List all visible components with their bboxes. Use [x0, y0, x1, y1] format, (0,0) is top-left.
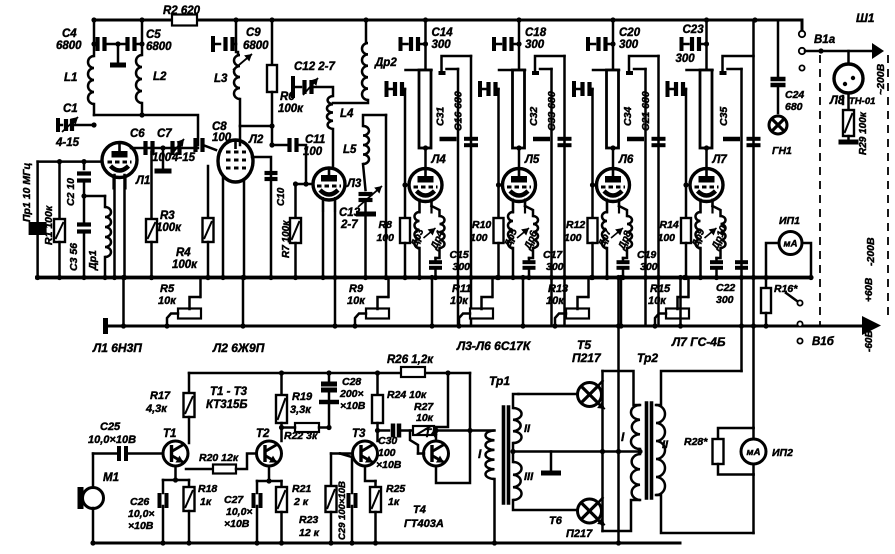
capacitor C9 6800: [211, 36, 215, 52]
svg-text:100к: 100к: [156, 222, 182, 234]
transformer Tr2: [631, 405, 640, 449]
svg-text:4-15: 4-15: [171, 152, 196, 164]
resistor R8 100: [404, 89, 407, 218]
tube Л5: [503, 169, 536, 202]
resistor R9 10к trimmer: [366, 309, 389, 319]
svg-text:Т2: Т2: [256, 428, 270, 440]
anode line element of Л4: [406, 69, 432, 72]
svg-text:100: 100: [303, 146, 323, 158]
wire bottom bus B4: [93, 542, 680, 545]
svg-text:C9: C9: [246, 27, 261, 39]
resistor R27 10k trimmer: [413, 426, 434, 435]
svg-text:R25: R25: [386, 483, 405, 495]
svg-text:ТН-01: ТН-01: [849, 96, 875, 107]
svg-text:Л4: Л4: [431, 154, 447, 166]
wire anode feed of Л5: [518, 20, 521, 69]
capacitor C27: [256, 481, 259, 493]
resistor R24 10k: [376, 373, 379, 395]
svg-text:×10В: ×10В: [224, 518, 250, 530]
transistor T1: [163, 441, 188, 466]
svg-text:С19: С19: [637, 249, 656, 261]
svg-text:1к: 1к: [388, 496, 400, 508]
wire L3 cathode legs: [322, 199, 325, 278]
svg-text:R15: R15: [650, 283, 671, 295]
svg-text:С20: С20: [619, 27, 641, 39]
svg-text:мА: мА: [784, 239, 798, 250]
svg-text:C10: C10: [276, 187, 287, 206]
resistor R3 100k: [150, 152, 153, 219]
grid capacitor of Л7: [666, 81, 670, 97]
svg-text:L1: L1: [64, 72, 77, 84]
wire anode feed of Л6: [612, 20, 615, 69]
wire T3 base node: [340, 452, 352, 455]
svg-text:4,3к: 4,3к: [145, 403, 168, 415]
capacitor С19 300 of Л6: [622, 258, 625, 260]
svg-text:10к: 10к: [450, 295, 469, 307]
svg-text:Пр1 10 МГц: Пр1 10 МГц: [21, 162, 33, 222]
wire mid bus B2: [37, 276, 811, 280]
svg-text:R21: R21: [292, 483, 311, 495]
svg-text:300: 300: [676, 53, 696, 65]
svg-text:100: 100: [658, 232, 676, 244]
anode line element of Л7: [687, 69, 713, 72]
svg-text:ГН1: ГН1: [772, 145, 792, 157]
svg-text:300: 300: [640, 261, 658, 273]
svg-text:С13: С13: [339, 207, 361, 219]
svg-text:2-7: 2-7: [340, 219, 358, 231]
svg-text:С31: С31: [435, 107, 447, 126]
svg-text:10к: 10к: [648, 295, 667, 307]
svg-text:10к: 10к: [347, 295, 366, 307]
crystal Pr1: [36, 162, 39, 222]
resistor R20 12k: [186, 468, 213, 471]
svg-text:Т3: Т3: [352, 428, 366, 440]
svg-text:C25: C25: [100, 421, 121, 433]
capacitor С31 of Л4: [439, 71, 446, 75]
svg-text:М1: М1: [103, 472, 119, 484]
svg-text:С22: С22: [716, 282, 735, 294]
svg-text:×10В: ×10В: [128, 520, 154, 532]
svg-text:R29 100к: R29 100к: [858, 111, 869, 155]
svg-text:C2 10: C2 10: [65, 178, 77, 206]
capacitor С35 of Л7: [720, 71, 727, 75]
wire T5 base: [519, 393, 578, 396]
svg-text:3,3к: 3,3к: [290, 404, 312, 416]
capacitor С17 300 of Л5: [528, 258, 531, 260]
svg-text:L3: L3: [214, 73, 228, 85]
wire L3 to R6 node: [240, 125, 272, 128]
svg-text:R9: R9: [349, 283, 364, 295]
tube L2 6Zh9P: [218, 140, 253, 182]
svg-text:С28: С28: [342, 376, 361, 388]
svg-text:300: 300: [546, 261, 564, 273]
terminal V1a top: [799, 31, 805, 37]
verticals between buses: [122, 278, 125, 327]
capacitor loop С21 680 of Л6: [629, 56, 659, 72]
wire antenna line: [799, 48, 805, 54]
svg-text:L5: L5: [343, 144, 357, 156]
svg-text:С18: С18: [525, 27, 547, 39]
grid capacitor of Л6: [572, 81, 576, 97]
svg-text:Л7: Л7: [712, 154, 728, 166]
svg-text:6800: 6800: [243, 40, 269, 52]
svg-text:680: 680: [785, 101, 803, 113]
resistor R26 1.2k: [401, 367, 425, 377]
capacitor C4: [95, 37, 99, 51]
resistor R23 12k: [330, 454, 333, 487]
svg-text:~200В: ~200В: [875, 63, 887, 95]
svg-text:С7: С7: [157, 128, 172, 140]
grid capacitor of Л4: [385, 81, 389, 97]
wire anode feed of Л7: [705, 20, 708, 69]
dashed connector lines: [819, 55, 821, 326]
svg-text:С17: С17: [543, 249, 563, 261]
svg-text:ГТ403А: ГТ403А: [404, 518, 444, 530]
resistor R17 4.3k: [188, 373, 191, 393]
wire feed to Tr1: [469, 373, 472, 431]
svg-text:200×: 200×: [339, 388, 364, 400]
resistor R25 1k: [374, 481, 377, 487]
terminal left end of B3: [103, 318, 108, 334]
svg-text:R5: R5: [160, 283, 175, 295]
svg-text:R23: R23: [299, 514, 318, 526]
microphone M1: [92, 454, 95, 488]
svg-text:Л3: Л3: [346, 178, 362, 190]
svg-text:R14: R14: [660, 219, 679, 231]
inductor L5: [363, 115, 386, 126]
tube Л6: [597, 169, 630, 202]
capacitor C3 56: [81, 193, 86, 198]
svg-text:100к: 100к: [172, 259, 198, 271]
svg-text:Тр2: Тр2: [637, 351, 658, 365]
resistor R18 1k: [188, 480, 191, 487]
resistor R28: [718, 428, 754, 439]
cathode chokes Др7 Др8 of Л6: [602, 212, 607, 248]
svg-text:Л1: Л1: [135, 175, 150, 187]
svg-text:С29 100×10В: С29 100×10В: [337, 481, 348, 540]
svg-text:Л2 6Ж9П: Л2 6Ж9П: [212, 341, 265, 355]
wire T5 collector to Tr2: [603, 371, 641, 405]
transistor T3: [353, 441, 378, 466]
capacitor C6: [143, 141, 147, 155]
svg-text:С12 2-7: С12 2-7: [294, 61, 336, 73]
capacitor loop C of Л7: [723, 56, 754, 72]
svg-text:R24 10к: R24 10к: [387, 389, 427, 401]
wire anode feed of Л4: [424, 20, 427, 69]
svg-text:Т6: Т6: [549, 515, 563, 527]
wire T4 collector: [436, 373, 448, 441]
lamp L8 TN-01: [847, 51, 850, 64]
wire T1 emitter node: [163, 466, 176, 480]
ground between C4 C5: [117, 44, 120, 62]
connector arrow right end of B3: [862, 316, 881, 335]
svg-text:мА: мА: [747, 447, 761, 458]
svg-text:С30: С30: [378, 435, 397, 447]
svg-text:Др2: Др2: [374, 57, 397, 69]
tube Л7: [690, 169, 723, 202]
svg-text:100: 100: [377, 232, 395, 244]
svg-text:Др1: Др1: [87, 250, 99, 271]
tube L3 6S17K: [313, 168, 345, 200]
switch contact: [797, 300, 802, 305]
svg-text:С14: С14: [432, 27, 454, 39]
svg-text:L2: L2: [153, 71, 167, 83]
svg-text:Т5: Т5: [577, 338, 591, 352]
capacitor C12 2-7 variable: [291, 76, 295, 98]
tube L1 6N3P: [102, 143, 137, 178]
svg-text:10к: 10к: [546, 295, 565, 307]
svg-text:C1: C1: [63, 103, 78, 115]
svg-text:300: 300: [432, 39, 452, 51]
transistor T5 P217: [578, 383, 602, 407]
svg-text:C5: C5: [146, 29, 161, 41]
open circle below V1a: [799, 65, 804, 70]
transistor T4: [424, 441, 449, 466]
transistor T2: [257, 441, 282, 466]
wire top supply bus: [94, 20, 802, 31]
capacitor C13 2-7: [363, 164, 366, 190]
junction dots on B2: [35, 275, 40, 280]
wire center tap line: [513, 450, 640, 453]
cathode chokes Др3 Др4 of Л4: [415, 212, 420, 248]
resistor R12 100: [591, 89, 594, 218]
capacitor C30 electrolytic: [375, 428, 380, 433]
svg-text:R12: R12: [566, 219, 585, 231]
capacitor C25: [93, 452, 116, 455]
svg-text:Тр1: Тр1: [489, 374, 510, 388]
svg-text:C3 56: C3 56: [68, 243, 80, 271]
svg-text:R7 100к: R7 100к: [281, 220, 292, 258]
capacitor C26: [162, 480, 165, 493]
grid capacitor of Л5: [478, 81, 482, 97]
svg-text:6800: 6800: [56, 40, 82, 52]
inductor L1: [93, 44, 96, 56]
capacitor loop С16 680 of Л4: [442, 56, 472, 72]
wire cathode bus B3: [105, 325, 864, 328]
svg-text:×10В: ×10В: [376, 459, 402, 471]
svg-text:Т4: Т4: [413, 504, 426, 516]
svg-text:В1а: В1а: [814, 34, 836, 46]
svg-text:П217: П217: [572, 351, 602, 365]
svg-text:100: 100: [378, 447, 396, 459]
svg-text:R8: R8: [379, 219, 393, 231]
svg-text:Л1 6Н3П: Л1 6Н3П: [92, 341, 142, 355]
vertical through bus: [617, 278, 620, 544]
svg-text:2 к: 2 к: [293, 496, 309, 508]
svg-text:R11: R11: [452, 283, 471, 295]
resistor R21 2k: [280, 481, 283, 487]
svg-text:R10: R10: [472, 219, 491, 231]
svg-text:100к: 100к: [278, 103, 304, 115]
svg-text:10к: 10к: [158, 295, 177, 307]
transistor T6 P217: [578, 499, 602, 523]
svg-text:R20 12к: R20 12к: [199, 452, 239, 464]
resistor R14 100: [685, 89, 688, 218]
svg-text:10,0×: 10,0×: [226, 506, 253, 518]
svg-text:L4: L4: [340, 108, 354, 120]
svg-text:ИП1: ИП1: [779, 215, 800, 227]
svg-text:II: II: [524, 423, 531, 435]
capacitor C7 variable: [170, 141, 174, 155]
svg-text:300: 300: [453, 261, 471, 273]
svg-text:Т1 - Т3: Т1 - Т3: [210, 386, 248, 398]
wire L1 anode line: [131, 147, 198, 150]
svg-text:Л7 ГС-4Б: Л7 ГС-4Б: [671, 335, 726, 349]
svg-text:П217: П217: [566, 528, 593, 540]
svg-text:C27: C27: [224, 494, 244, 506]
wire L1 cathode legs: [113, 175, 116, 278]
svg-text:6800: 6800: [146, 41, 172, 53]
wire HT feed vertical 2: [752, 20, 755, 428]
svg-text:-200В: -200В: [865, 237, 877, 266]
capacitor C29: [340, 454, 352, 494]
capacitor С18 300: [492, 37, 496, 51]
svg-text:1к: 1к: [200, 496, 212, 508]
choke Dr2: [365, 20, 368, 43]
svg-text:С6: С6: [130, 128, 145, 140]
svg-text:R17: R17: [150, 390, 171, 402]
wire grid line of L1: [38, 160, 102, 163]
resistor R5 10к trimmer: [178, 309, 201, 319]
capacitor C1 variable: [56, 118, 60, 132]
wire HT feed vertical 1: [740, 69, 743, 371]
capacitor C10 6800: [252, 157, 271, 278]
capacitor С34 of Л6: [626, 71, 633, 75]
capacitor loop С33 680 of Л5: [535, 56, 565, 72]
anode line element of Л6: [593, 69, 619, 72]
resistor R13 10к trimmer: [566, 309, 589, 319]
resistor R11 10к trimmer: [470, 309, 493, 319]
resistor R29 100k: [847, 93, 850, 110]
capacitor С23 300: [680, 37, 684, 51]
ground of center tap: [550, 452, 553, 471]
capacitor C24 680: [777, 20, 780, 76]
svg-text:Л2: Л2: [248, 134, 264, 146]
svg-text:Л3-Л6 6С17К: Л3-Л6 6С17К: [456, 339, 532, 353]
resistor R6 100k: [271, 20, 274, 65]
cathode chokes Др5 Др6 of Л5: [508, 212, 513, 248]
inductor L4: [327, 96, 333, 129]
svg-text:100: 100: [470, 232, 488, 244]
capacitor С14 300: [399, 37, 403, 51]
svg-text:R22 3к: R22 3к: [284, 430, 318, 442]
wire Tr2 secondary top: [656, 371, 742, 405]
wire Tr2 secondary bottom: [656, 495, 754, 533]
capacitor C11 100: [272, 144, 287, 147]
resistor R19 3.3k: [280, 373, 283, 395]
inductor L3 with arrow: [235, 20, 238, 52]
cathode chokes Др9 Др10 of Л7: [696, 212, 701, 248]
resistor R7 100k: [294, 184, 297, 218]
svg-text:R1 100к: R1 100к: [43, 205, 55, 245]
wire T3 emitter: [365, 466, 376, 481]
svg-text:12 к: 12 к: [299, 527, 320, 539]
terminal V1b: [797, 338, 802, 343]
capacitor C28 electrolytic: [328, 373, 331, 381]
svg-text:-60В: -60В: [864, 330, 875, 352]
svg-text:С32: С32: [528, 107, 540, 126]
resistor R15 10к trimmer: [666, 309, 689, 319]
wire R27 to junction: [434, 429, 470, 432]
svg-text:R13: R13: [548, 283, 568, 295]
resistor R2: [172, 15, 197, 26]
svg-text:R3: R3: [160, 210, 175, 222]
svg-text:Л6: Л6: [618, 154, 634, 166]
svg-text:10к: 10к: [416, 412, 434, 424]
capacitor C5: [125, 37, 129, 51]
ground of C6 C7: [162, 148, 165, 168]
tube Л4: [409, 169, 442, 202]
svg-text:С35: С35: [718, 107, 730, 126]
svg-text:300: 300: [525, 39, 545, 51]
svg-text:10,0×10В: 10,0×10В: [88, 434, 136, 446]
wire aux line right of L5: [385, 115, 388, 278]
svg-text:R28*: R28*: [684, 436, 708, 448]
svg-text:4-15: 4-15: [55, 137, 80, 149]
wire T6 to Tr2 bottom: [603, 500, 641, 531]
resistor R22 3k: [279, 425, 284, 430]
wire bus to C4: [93, 20, 96, 44]
svg-text:Т1: Т1: [163, 428, 176, 440]
svg-text:С15: С15: [450, 249, 469, 261]
jack GN1: [769, 116, 787, 134]
meter IP2: [741, 439, 766, 464]
capacitor С32 of Л5: [532, 71, 539, 75]
svg-text:В1б: В1б: [812, 336, 835, 348]
svg-text:R18: R18: [198, 483, 217, 495]
svg-text:С23: С23: [683, 24, 705, 36]
svg-text:R4: R4: [176, 247, 191, 259]
wire top rail of transistor section: [189, 372, 470, 375]
svg-text:C26: C26: [130, 496, 149, 508]
svg-text:С34: С34: [622, 107, 634, 126]
svg-text:10,0×: 10,0×: [128, 508, 155, 520]
capacitor cathode of Л7: [715, 258, 718, 260]
svg-text:+60В: +60В: [864, 278, 875, 302]
svg-text:C4: C4: [62, 28, 77, 40]
svg-text:R26 1,2к: R26 1,2к: [387, 354, 434, 366]
anode line element of Л5: [499, 69, 525, 72]
svg-text:×10В: ×10В: [340, 400, 366, 412]
capacitor C2 10: [83, 162, 86, 169]
svg-text:R2 620: R2 620: [163, 5, 201, 17]
svg-text:КТ315Б: КТ315Б: [206, 399, 248, 411]
resistor R16: [765, 278, 768, 289]
svg-text:C11: C11: [305, 134, 325, 146]
wire T5 T6 rail: [601, 371, 604, 531]
inductor L2: [141, 44, 144, 55]
resistor R10 100: [497, 89, 500, 218]
svg-text:300: 300: [619, 39, 639, 51]
choke Dr1: [84, 195, 105, 198]
svg-text:С24: С24: [785, 89, 804, 101]
wire tank bottom: [94, 115, 198, 145]
svg-text:II: II: [662, 439, 669, 451]
svg-text:100: 100: [564, 232, 582, 244]
capacitor С20 300: [586, 37, 590, 51]
svg-text:Ш1: Ш1: [856, 11, 875, 25]
svg-text:300: 300: [716, 294, 734, 306]
wire L2 cathode legs: [222, 178, 225, 278]
connector arrow antenna: [872, 43, 884, 59]
svg-text:III: III: [524, 471, 534, 483]
resistor R1 100k: [58, 162, 61, 219]
wire T2 emitter node: [257, 466, 269, 481]
wire T4 emitter loop: [436, 431, 470, 484]
capacitor С15 300 of Л4: [434, 258, 437, 260]
capacitor C8: [193, 138, 197, 152]
svg-text:R19: R19: [292, 391, 313, 403]
